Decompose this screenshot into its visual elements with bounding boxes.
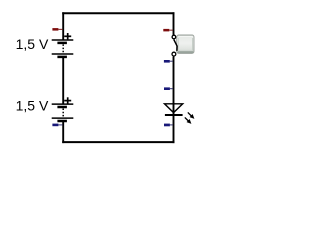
switch S1 lever (174, 40, 177, 51)
switch S1 bottom contact circle (172, 52, 176, 56)
LED D1 top terminal blue marker (164, 87, 173, 90)
battery B2 cell1 long plate (52, 103, 74, 105)
battery B2 dotted link (62, 109, 64, 118)
wire top (62, 12, 174, 14)
LED D1 emission arrow 2 (185, 117, 191, 123)
LED D1 bottom terminal blue marker (164, 124, 173, 127)
battery B2 plus sign (64, 97, 71, 103)
LED D1 triangle (165, 104, 183, 113)
switch S1 top contact circle (172, 35, 176, 39)
battery B1 cell2 short plate (57, 56, 67, 59)
switch S1 bottom terminal blue marker (164, 60, 173, 63)
wire right upper (173, 12, 175, 35)
battery B1 cell1 short plate (57, 42, 67, 45)
battery B2 cell2 short plate (57, 120, 67, 123)
battery B2 negative terminal blue marker (52, 124, 62, 127)
wire left middle (62, 57, 64, 105)
switch S1 button cap (177, 35, 194, 53)
svg-text:1,5 V: 1,5 V (16, 36, 49, 52)
LED D1 cathode bar (165, 114, 183, 116)
svg-text:1,5 V: 1,5 V (16, 98, 49, 114)
battery B2 cell1 short plate (57, 106, 67, 109)
battery B1 dotted link (62, 44, 64, 53)
wire bottom (62, 141, 174, 143)
wire left lower (62, 121, 64, 143)
battery B1 cell1 long plate (52, 39, 74, 41)
LED D1 emission arrow 1 (188, 112, 194, 118)
battery B2 cell2 long plate (52, 117, 74, 119)
battery B1 positive terminal red marker (52, 28, 62, 31)
battery B1 cell2 long plate (52, 53, 74, 55)
battery B1 plus sign (64, 33, 71, 39)
wire left upper (62, 12, 64, 40)
switch S1 top terminal red marker (163, 29, 173, 32)
wire right lower (173, 57, 175, 144)
